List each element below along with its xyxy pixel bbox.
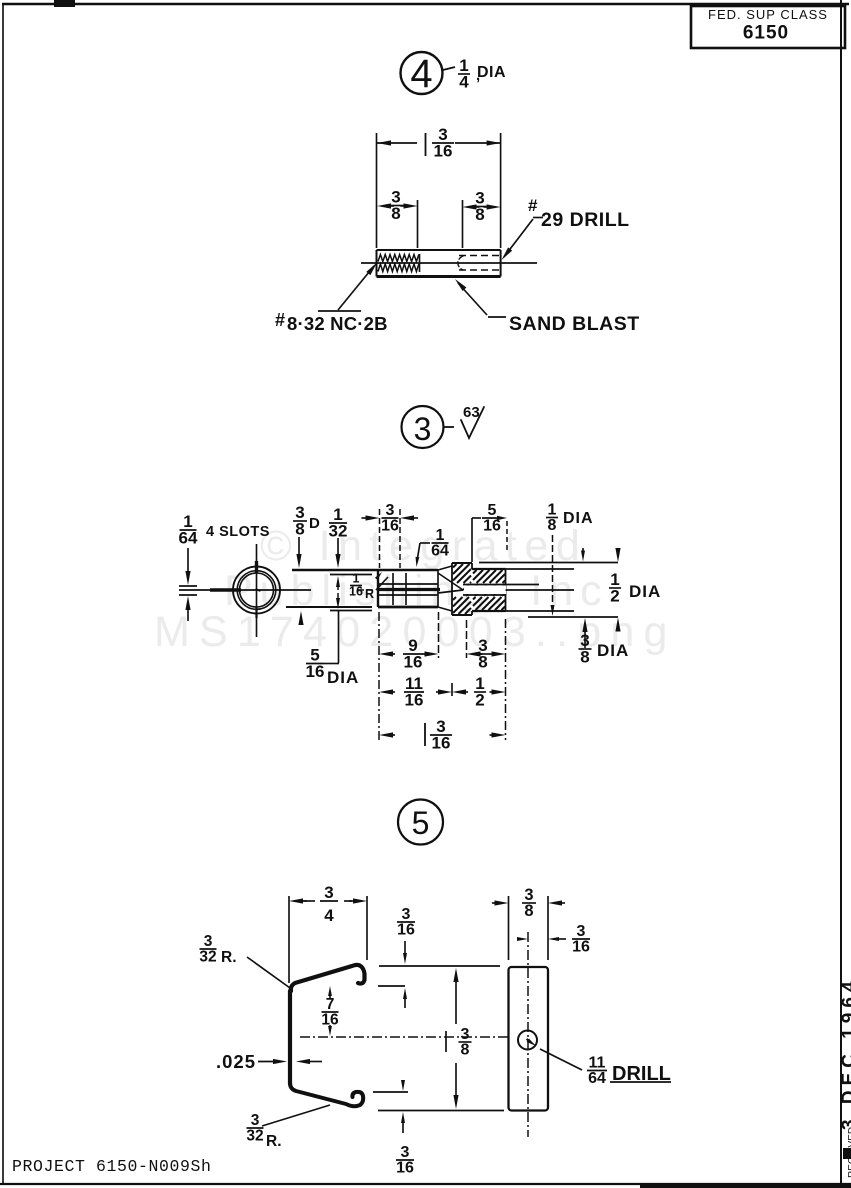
svg-text:SAND BLAST: SAND BLAST (509, 313, 640, 335)
svg-text:32: 32 (246, 1127, 263, 1144)
svg-text:16: 16 (572, 939, 590, 956)
svg-text:8: 8 (461, 1042, 470, 1059)
svg-text:32: 32 (329, 521, 348, 540)
svg-text:16: 16 (483, 518, 501, 535)
svg-text:6150: 6150 (743, 23, 789, 44)
svg-text:3: 3 (577, 923, 586, 940)
svg-text:D: D (309, 515, 320, 532)
svg-text:16: 16 (397, 922, 415, 939)
svg-text:3: 3 (461, 1026, 470, 1043)
svg-text:8: 8 (524, 902, 533, 920)
svg-text:.025: .025 (216, 1051, 256, 1072)
svg-text:16: 16 (381, 518, 399, 535)
svg-text:8: 8 (580, 647, 589, 666)
svg-text:FED. SUP CLASS: FED. SUP CLASS (708, 7, 828, 22)
svg-text:1: 1 (436, 527, 445, 544)
svg-text:DIA: DIA (597, 641, 629, 660)
svg-text:8: 8 (475, 205, 484, 224)
svg-text:8: 8 (478, 652, 487, 671)
svg-text:DIA: DIA (629, 582, 661, 601)
svg-text:64: 64 (431, 543, 449, 560)
svg-text:64: 64 (179, 528, 198, 547)
svg-text:11: 11 (589, 1055, 606, 1072)
svg-text:16: 16 (434, 141, 453, 160)
svg-text:16: 16 (432, 733, 451, 752)
svg-text:29 DRILL: 29 DRILL (541, 209, 630, 231)
svg-text:63: 63 (463, 404, 480, 421)
svg-text:5: 5 (412, 805, 430, 841)
svg-text:8: 8 (548, 517, 557, 534)
svg-text:2: 2 (610, 586, 619, 605)
svg-text:R.: R. (266, 1133, 282, 1150)
svg-text:3: 3 (386, 502, 395, 519)
svg-text:8: 8 (391, 204, 400, 223)
svg-text:R.: R. (221, 949, 237, 966)
svg-text:DIA: DIA (563, 510, 594, 527)
svg-text:DIA: DIA (477, 64, 506, 81)
svg-text:8: 8 (295, 519, 304, 538)
svg-text:RECEIVED: RECEIVED (847, 1127, 851, 1178)
svg-text:1: 1 (548, 502, 557, 519)
svg-text:32: 32 (199, 948, 216, 965)
svg-text:4 SLOTS: 4 SLOTS (206, 524, 270, 540)
svg-text:3 DEC 1964: 3 DEC 1964 (839, 976, 851, 1130)
svg-text:5: 5 (488, 502, 497, 519)
svg-text:R: R (365, 587, 374, 601)
svg-text:16: 16 (405, 690, 424, 709)
svg-text:4: 4 (324, 906, 334, 925)
svg-text:2: 2 (475, 690, 484, 709)
svg-text:16: 16 (349, 585, 363, 599)
svg-text:8·32 NC·2B: 8·32 NC·2B (287, 313, 388, 334)
svg-text:DIA: DIA (327, 668, 359, 687)
svg-text:3: 3 (402, 906, 411, 923)
svg-text:3: 3 (324, 883, 333, 902)
svg-text:1: 1 (353, 572, 360, 586)
svg-text:4: 4 (410, 52, 432, 96)
svg-text:#: # (275, 310, 285, 330)
svg-text:16: 16 (396, 1160, 414, 1177)
svg-text:3: 3 (401, 1144, 410, 1161)
svg-text:PROJECT 6150-N009Sh: PROJECT 6150-N009Sh (12, 1157, 212, 1176)
svg-text:3: 3 (414, 411, 432, 447)
svg-text:16: 16 (306, 662, 325, 681)
svg-text:4: 4 (459, 72, 469, 91)
svg-text:16: 16 (404, 652, 423, 671)
svg-text:#: # (528, 196, 538, 215)
svg-text:64: 64 (588, 1070, 606, 1087)
